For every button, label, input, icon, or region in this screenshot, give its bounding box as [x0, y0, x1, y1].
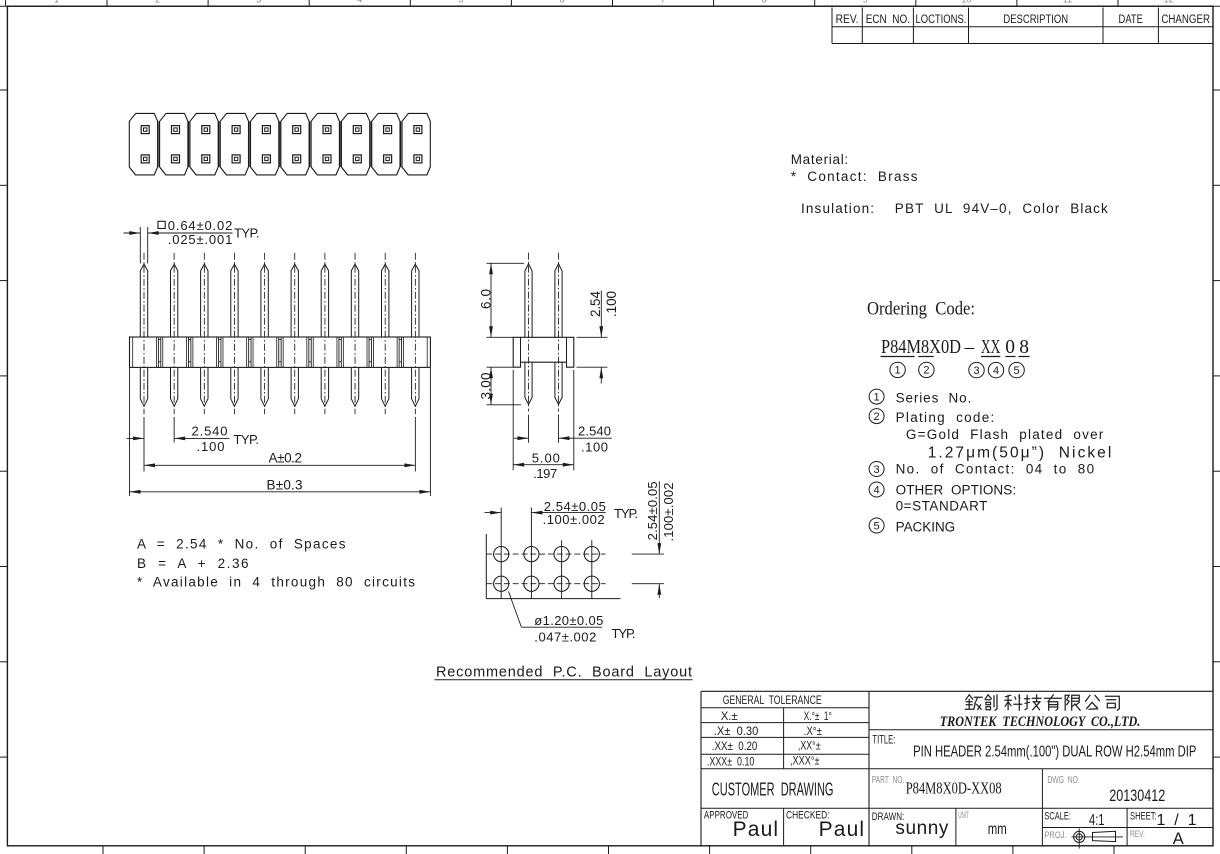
top view segment 3 [190, 113, 218, 174]
top view segment 7 [311, 113, 339, 174]
svg-text:1: 1 [54, 0, 59, 4]
svg-text:3: 3 [874, 464, 880, 476]
svg-text:.100±.002: .100±.002 [661, 483, 676, 542]
front view pin 5 [261, 264, 268, 337]
svg-text:0: 0 [1005, 337, 1015, 358]
svg-text:9: 9 [863, 0, 868, 4]
svg-text:UNIT: UNIT [958, 810, 969, 821]
svg-text:SCALE:: SCALE: [1044, 810, 1071, 822]
svg-text:CUSTOMER DRAWING: CUSTOMER DRAWING [712, 779, 834, 799]
svg-text:DESCRIPTION: DESCRIPTION [1003, 14, 1068, 26]
svg-text:mm: mm [988, 821, 1007, 838]
end view pin at x=528.5 [525, 264, 532, 338]
center line [528, 253, 530, 412]
dimension 2.54±0.05 horizontal [485, 512, 502, 514]
front view pin 8 [351, 264, 358, 337]
revision table [831, 8, 833, 44]
svg-text:.047±.002: .047±.002 [534, 629, 596, 644]
svg-text:P84M8X0D: P84M8X0D [881, 337, 961, 358]
svg-text:TYP.: TYP. [234, 225, 260, 240]
page frame: outer zone ruler top line [0, 5, 1220, 7]
svg-text:No. of Contact: 04 to 80: No. of Contact: 04 to 80 [896, 462, 1095, 477]
svg-text:10: 10 [961, 0, 971, 4]
svg-text:REV.: REV. [1130, 829, 1145, 840]
ordering code legend [869, 389, 884, 404]
svg-text:sunny: sunny [895, 818, 949, 839]
center line pin 9 [384, 253, 386, 414]
svg-text:DWG NO.: DWG NO. [1047, 774, 1079, 786]
top view segment 5 [251, 113, 279, 174]
svg-text:Ordering Code:: Ordering Code: [867, 299, 975, 320]
pcb hole [524, 576, 539, 591]
top view segment 1 [129, 113, 157, 174]
svg-text:.X± 0.30: .X± 0.30 [714, 726, 759, 738]
svg-text:–: – [964, 337, 975, 358]
title block lines [700, 691, 702, 846]
svg-text:OTHER OPTIONS:: OTHER OPTIONS: [896, 482, 1017, 497]
dimension 3.00 [487, 366, 514, 368]
svg-text:* Contact: Brass: * Contact: Brass [791, 169, 918, 184]
center line pin 6 [294, 253, 296, 414]
top view pin squares segment 3 [202, 126, 210, 134]
pcb hole grid lines [500, 508, 502, 599]
svg-text:DATE: DATE [1119, 14, 1144, 26]
svg-text:2: 2 [874, 411, 880, 423]
pcb hole [584, 547, 599, 562]
web line [339, 121, 341, 167]
center line pin 7 [324, 253, 326, 414]
svg-text:6.0: 6.0 [479, 289, 494, 309]
web line [157, 121, 159, 167]
svg-text:1: 1 [895, 365, 901, 377]
svg-text:4: 4 [993, 365, 999, 377]
pcb hole [554, 547, 569, 562]
top view segment 6 [281, 113, 309, 174]
zone ticks bottom [102, 846, 104, 854]
svg-text:,XXX°±: ,XXX°± [790, 756, 820, 768]
svg-text:XX: XX [981, 337, 1001, 358]
web line [218, 121, 220, 167]
svg-text:2.54±0.05: 2.54±0.05 [645, 481, 660, 540]
dimension 5.00 width [512, 370, 514, 470]
fraction bar + dim line [600, 291, 602, 338]
svg-text:1 / 1: 1 / 1 [1157, 812, 1197, 829]
svg-text:PIN HEADER 2.54mm(.100") DUAL: PIN HEADER 2.54mm(.100") DUAL ROW H2.54m… [913, 743, 1196, 760]
svg-text:TYP.: TYP. [234, 432, 260, 447]
top view segment 4 [220, 113, 248, 174]
circled numbers under code [890, 362, 905, 377]
front view pin 2 [171, 264, 178, 337]
top view pin squares segment 8 [353, 126, 361, 134]
svg-text:REV.: REV. [836, 14, 859, 26]
svg-text:1: 1 [874, 391, 880, 403]
front view: housing strip [130, 337, 431, 367]
svg-text:8: 8 [1019, 337, 1029, 358]
front view pin 1 [140, 264, 147, 337]
svg-text:CHANGER: CHANGER [1161, 14, 1210, 26]
web line [188, 121, 190, 167]
center line pin 5 [264, 253, 266, 414]
svg-text:Paul: Paul [733, 818, 779, 841]
svg-text:.X°±: .X°± [804, 726, 822, 738]
zone ticks top [106, 0, 108, 6]
top view pin squares segment 4 [232, 126, 240, 134]
top view pin squares segment 5 [262, 126, 270, 134]
company name 鋐創科技有限公司 drawn as strokes [965, 695, 982, 710]
svg-text:.100±.002: .100±.002 [543, 512, 605, 527]
svg-text:Recommended P.C. Board Layo: Recommended P.C. Board Layout [436, 664, 692, 680]
front view pin 9 [382, 264, 389, 337]
svg-text:.XX± 0.20: .XX± 0.20 [712, 741, 758, 753]
web line [248, 121, 250, 167]
svg-text:12: 12 [1164, 0, 1174, 4]
svg-text:A: A [1173, 830, 1184, 848]
svg-text:LOCTIONS.: LOCTIONS. [916, 14, 967, 26]
dimension B±0.3 [129, 368, 131, 496]
svg-text:2: 2 [155, 0, 160, 4]
pcb hole [584, 576, 599, 591]
svg-text:Plating code:: Plating code: [896, 410, 995, 425]
svg-text:3: 3 [256, 0, 261, 4]
front view pin 7 [321, 264, 328, 337]
svg-text:5: 5 [1014, 365, 1020, 377]
front view pin 4 [231, 264, 238, 337]
svg-text:Insulation: PBT UL 94V–0,: Insulation: PBT UL 94V–0, Color Black [801, 201, 1108, 216]
top view segment 10 [402, 113, 430, 174]
svg-text:X.°± 1°: X.°± 1° [804, 711, 832, 723]
svg-text:* Available in 4 through: * Available in 4 through 80 circuits [137, 574, 415, 589]
svg-text:.100: .100 [604, 291, 619, 317]
front view pin 10 [412, 264, 419, 337]
underlines [881, 356, 915, 358]
top view pin squares segment 6 [293, 126, 301, 134]
svg-text:ECN NO.: ECN NO. [866, 14, 910, 26]
dimension 2.540 pitch [143, 417, 145, 472]
front view pin 3 [201, 264, 208, 337]
svg-text:.100: .100 [581, 439, 608, 454]
svg-text:11: 11 [1063, 0, 1072, 4]
top view pin squares segment 1 [141, 126, 149, 134]
svg-text:3.00: 3.00 [479, 372, 494, 399]
svg-text:0=STANDART: 0=STANDART [896, 498, 988, 513]
center line pin 2 [173, 253, 175, 414]
svg-text:PROJ.: PROJ. [1044, 830, 1066, 841]
zone ticks right [1213, 89, 1220, 91]
svg-text:PART NO.: PART NO. [872, 774, 905, 786]
svg-text:5: 5 [458, 0, 463, 4]
square symbol [158, 221, 165, 228]
leader Ø1.20 [509, 592, 522, 627]
dimension A±0.2 [414, 417, 416, 472]
svg-text:.100: .100 [197, 439, 225, 454]
dimension 0.64 square pin [139, 227, 141, 264]
center line pin 10 [414, 253, 416, 414]
svg-text:.XXX± 0.10: .XXX± 0.10 [707, 757, 755, 769]
svg-text:.025±.001: .025±.001 [168, 232, 233, 247]
web line [309, 121, 311, 167]
svg-text:2.540: 2.540 [192, 423, 228, 438]
pcb hole [554, 576, 569, 591]
dimension 2.54 height [577, 336, 608, 338]
svg-text:7: 7 [661, 0, 666, 4]
pcb hole [494, 547, 509, 562]
center line pin 4 [233, 253, 235, 414]
svg-text:4:1: 4:1 [1089, 812, 1105, 829]
svg-text:2: 2 [923, 365, 929, 377]
svg-text:,XX°±: ,XX°± [798, 741, 821, 753]
end view: housing outline [513, 337, 574, 367]
svg-text:B±0.3: B±0.3 [267, 477, 303, 492]
svg-text:PACKING: PACKING [896, 520, 956, 535]
svg-text:A±0.2: A±0.2 [269, 451, 303, 466]
top view segment 2 [160, 113, 188, 174]
svg-text:0.64±0.02: 0.64±0.02 [168, 218, 233, 233]
svg-text:B = A + 2.36: B = A + 2.36 [137, 556, 249, 571]
svg-text:5: 5 [874, 520, 880, 532]
svg-text:1.27μm(50μ”) Nickel: 1.27μm(50μ”) Nickel [928, 445, 1112, 462]
end view pin at x=558.5 [555, 264, 562, 338]
svg-text:Material:: Material: [791, 152, 849, 167]
svg-text:TYP.: TYP. [614, 506, 638, 521]
svg-text:6: 6 [559, 0, 564, 4]
svg-text:8: 8 [762, 0, 767, 4]
svg-text:G=Gold Flash plated over: G=Gold Flash plated over [906, 427, 1104, 442]
web line [369, 121, 371, 167]
svg-text:X.±: X.± [721, 711, 738, 723]
top view pin squares segment 10 [414, 126, 422, 134]
svg-text:P84M8X0D-XX08: P84M8X0D-XX08 [906, 779, 1002, 798]
svg-text:3: 3 [973, 365, 979, 377]
center line pin 1 [143, 253, 145, 414]
dimension 2.54±0.05 vertical [632, 553, 664, 555]
top view segment 8 [341, 113, 369, 174]
svg-text:5.00: 5.00 [532, 450, 560, 465]
dimension 2.540 pitch end view [528, 415, 530, 443]
dimension 6.0 [487, 262, 525, 264]
center line pin 3 [203, 253, 205, 414]
svg-text:20130412: 20130412 [1109, 787, 1165, 805]
svg-text:.197: .197 [533, 466, 557, 481]
top view pin squares segment 7 [323, 126, 331, 134]
svg-text:4: 4 [357, 0, 362, 4]
svg-text:Series No.: Series No. [896, 391, 972, 406]
zone ticks left [0, 89, 7, 91]
front view pin 6 [291, 264, 298, 337]
svg-text:2.54: 2.54 [588, 291, 603, 317]
pcb hole [524, 547, 539, 562]
web line [400, 121, 402, 167]
top view segment 9 [372, 113, 400, 174]
svg-text:4: 4 [874, 484, 880, 496]
top view pin squares segment 9 [384, 126, 392, 134]
pcb hole [494, 576, 509, 591]
top view pin squares segment 2 [172, 126, 180, 134]
projection symbol [1074, 831, 1085, 842]
svg-text:Paul: Paul [819, 818, 865, 841]
web line [278, 121, 280, 167]
svg-text:SHEET:: SHEET: [1130, 810, 1157, 822]
svg-text:GENERAL TOLERANCE: GENERAL TOLERANCE [723, 695, 822, 707]
pcb layout: board edge [485, 534, 487, 599]
center line [558, 253, 560, 412]
svg-text:A = 2.54 * No. of Spaces: A = 2.54 * No. of Spaces [137, 536, 346, 551]
svg-text:2.540: 2.540 [578, 424, 611, 439]
svg-text:TYP.: TYP. [612, 626, 636, 641]
svg-text:TRONTEK TECHNOLOGY CO.,LTD.: TRONTEK TECHNOLOGY CO.,LTD. [940, 714, 1141, 730]
center line pin 8 [354, 253, 356, 414]
svg-text:ø1.20±0.05: ø1.20±0.05 [534, 613, 603, 628]
svg-text:TITLE:: TITLE: [872, 734, 895, 746]
